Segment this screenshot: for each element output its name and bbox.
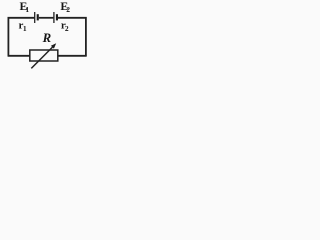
- battery E2 long thin plate: [53, 12, 55, 23]
- wire between batteries: [39, 17, 54, 19]
- rheostat arrowhead: [51, 43, 56, 48]
- wire bottom-right segment: [58, 55, 87, 57]
- svg-text:1: 1: [23, 24, 27, 33]
- battery E1 short thick plate: [37, 14, 39, 20]
- svg-text:2: 2: [66, 5, 70, 14]
- battery E1 long thin plate: [34, 12, 36, 23]
- svg-text:1: 1: [25, 5, 29, 14]
- rheostat arrow shaft: [31, 46, 54, 69]
- wire top-right segment + right vertical: [58, 18, 86, 57]
- wire bottom-left segment: [8, 55, 30, 57]
- battery E2 short thick plate: [56, 14, 58, 20]
- svg-text:R: R: [42, 31, 52, 45]
- wire left vertical + top-left segment: [8, 18, 34, 57]
- rheostat R box: [30, 50, 58, 61]
- svg-text:2: 2: [65, 24, 69, 33]
